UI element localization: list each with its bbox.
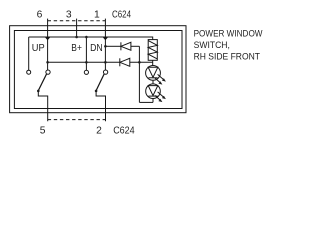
stub divider B+/DN to contact — [85, 62, 87, 70]
switch block right edge (pin 1 continuation) — [104, 37, 106, 70]
switch 1 arm — [38, 74, 46, 91]
pin 1 lead — [104, 19, 106, 37]
svg-text:RH SIDE FRONT: RH SIDE FRONT — [194, 51, 261, 61]
diode D2 cathode bar — [119, 58, 121, 66]
diode D1 input wire — [105, 45, 121, 47]
switch 1 arm dot — [37, 90, 40, 93]
LED1 arrow b — [155, 78, 163, 85]
svg-text:POWER WINDOW: POWER WINDOW — [194, 29, 263, 39]
wire resistor to LED1 — [152, 60, 154, 65]
svg-text:5: 5 — [40, 126, 46, 137]
svg-text:C624: C624 — [113, 126, 135, 137]
wire LED1 to LED2 — [152, 80, 154, 84]
pin 6 lead — [47, 19, 49, 37]
divider B+/DN — [85, 37, 87, 62]
LED2 arrow b — [155, 95, 163, 102]
LED1 triangle — [148, 67, 158, 77]
svg-text:SWITCH,: SWITCH, — [194, 40, 230, 50]
wire LED2 bottom — [152, 99, 154, 103]
arrowhead pin 6 — [46, 38, 49, 40]
switch 1 wire to pin 5 — [38, 91, 47, 121]
diode D1 output wire — [131, 45, 140, 47]
LED1 cathode bar — [148, 77, 157, 79]
diode D2 triangle — [120, 58, 130, 66]
junction dot bypass / diode wire — [138, 61, 141, 64]
LED2 circle — [146, 84, 161, 99]
arrowhead pin 1 — [104, 38, 107, 40]
junction dot pin 3 — [75, 36, 78, 39]
junction dot wire B on right edge — [104, 45, 107, 48]
connector outline inner box — [14, 31, 182, 109]
bypass wire vertical — [138, 46, 140, 102]
junction dot divider1 / common wire — [46, 61, 49, 64]
LED2 triangle — [148, 86, 158, 96]
contact circle 1 — [27, 70, 31, 74]
svg-text:6: 6 — [37, 10, 43, 21]
junction dot right edge / common wire — [104, 61, 107, 64]
svg-text:B+: B+ — [71, 43, 82, 54]
LED2 arrow a — [158, 92, 166, 99]
pin 3 lead — [76, 19, 78, 37]
switch 2 arm dot — [95, 90, 98, 93]
switch block left edge to contact — [28, 37, 30, 70]
connector outline outer box — [10, 26, 186, 113]
diode D1 cathode bar — [120, 42, 122, 50]
svg-text:1: 1 — [94, 10, 100, 21]
LED1 arrow a — [158, 74, 166, 81]
divider UP/B+ (pin 6 continuation) — [47, 37, 49, 70]
bottom dashed connector line C624 — [48, 119, 106, 121]
svg-text:DN: DN — [90, 43, 103, 54]
common wire to diode 2 — [48, 61, 120, 63]
switch 2 arm — [96, 74, 104, 91]
svg-text:2: 2 — [96, 126, 102, 137]
resistor R zigzag — [148, 41, 157, 59]
diode D2 output wire — [130, 61, 153, 63]
switch 2 wire to pin 2 — [96, 91, 105, 121]
resistor R box — [148, 40, 157, 61]
LED1 circle — [146, 66, 161, 81]
contact circle 3 — [84, 70, 88, 74]
contact circle 4 — [103, 70, 107, 74]
top dashed connector line C624 — [48, 20, 106, 22]
svg-text:UP: UP — [32, 43, 45, 54]
LED2 cathode bar — [148, 95, 157, 97]
junction dot divider B+/DN top — [85, 36, 88, 39]
bypass wire bottom — [139, 101, 153, 103]
switch block label box top edge and wire to resistor — [29, 37, 153, 40]
contact circle 2 — [46, 70, 50, 74]
svg-text:3: 3 — [66, 10, 72, 21]
diode D1 triangle — [121, 42, 131, 50]
junction dot divider2 / common wire — [85, 61, 88, 64]
svg-text:C624: C624 — [112, 10, 131, 21]
